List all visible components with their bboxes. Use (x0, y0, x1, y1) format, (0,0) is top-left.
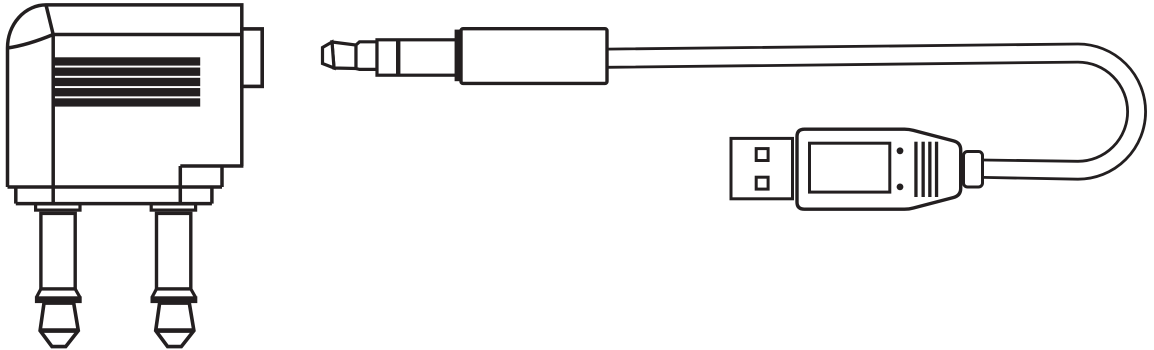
USB strain relief collar (964, 152, 983, 188)
adapter bottom-right panel horizontal line (180, 164, 243, 168)
plug 2 barrel (157, 213, 191, 289)
adapter top-face bottom line (53, 33, 242, 37)
TRS shaft (377, 40, 457, 75)
plug 2 neck band (151, 296, 198, 303)
adapter panel left vertical (179, 166, 183, 204)
vent slot 4 (52, 88, 200, 96)
plug 1 tip equator line (40, 328, 78, 333)
cable inner edge (607, 62, 1128, 161)
adapter inner curve (top face / side face boundary) (8, 35, 54, 49)
plug 1 neck band (35, 296, 82, 303)
USB shell hole 1 (756, 149, 768, 161)
cable outer edge (607, 44, 1146, 179)
TRS tip cap (323, 42, 335, 68)
plug 2 bevel (152, 289, 195, 297)
USB shell (731, 138, 793, 198)
plug 1 tip (40, 303, 78, 347)
adapter right side tab (242, 29, 262, 87)
TRS tip knob cone (332, 42, 356, 69)
adapter corner slant edge (46, 5, 53, 35)
vent slot 5 (52, 98, 200, 106)
adapter front-left vertical edge (51, 35, 55, 204)
plug 1 bevel (37, 289, 80, 297)
vent slot 2 (52, 68, 200, 76)
adapter panel right vertical (220, 166, 224, 187)
USB dot 2 (897, 184, 904, 191)
USB shell hole 2 (756, 177, 768, 189)
USB body (797, 129, 961, 209)
plug 1 barrel (41, 213, 75, 289)
adapter base right edge (210, 187, 214, 204)
USB grip bar 1 (914, 142, 917, 197)
plug 1 flange (36, 204, 80, 210)
USB label rectangle (810, 143, 890, 192)
adapter outer contour (top line, rounded left corner, left edge) (8, 5, 242, 187)
vent slot 3 (52, 78, 200, 86)
adapter base bottom line (16, 202, 212, 206)
adapter base left edge (14, 187, 18, 204)
USB grip bar 3 (928, 142, 931, 197)
USB grip bar 2 (922, 142, 925, 197)
plug 2 tip equator line (156, 328, 194, 333)
TRS shaft ring bar (396, 39, 400, 76)
TRS body (461, 29, 607, 84)
plug 2 flange (151, 204, 195, 210)
TRS cap flange (455, 30, 461, 82)
USB grip bar 4 (935, 142, 938, 197)
plug 2 tip (156, 303, 194, 347)
TRS ring segment (356, 42, 377, 70)
vent slot 1 (52, 57, 200, 65)
adapter box bottom line (8, 185, 223, 189)
USB dot 1 (897, 147, 904, 154)
